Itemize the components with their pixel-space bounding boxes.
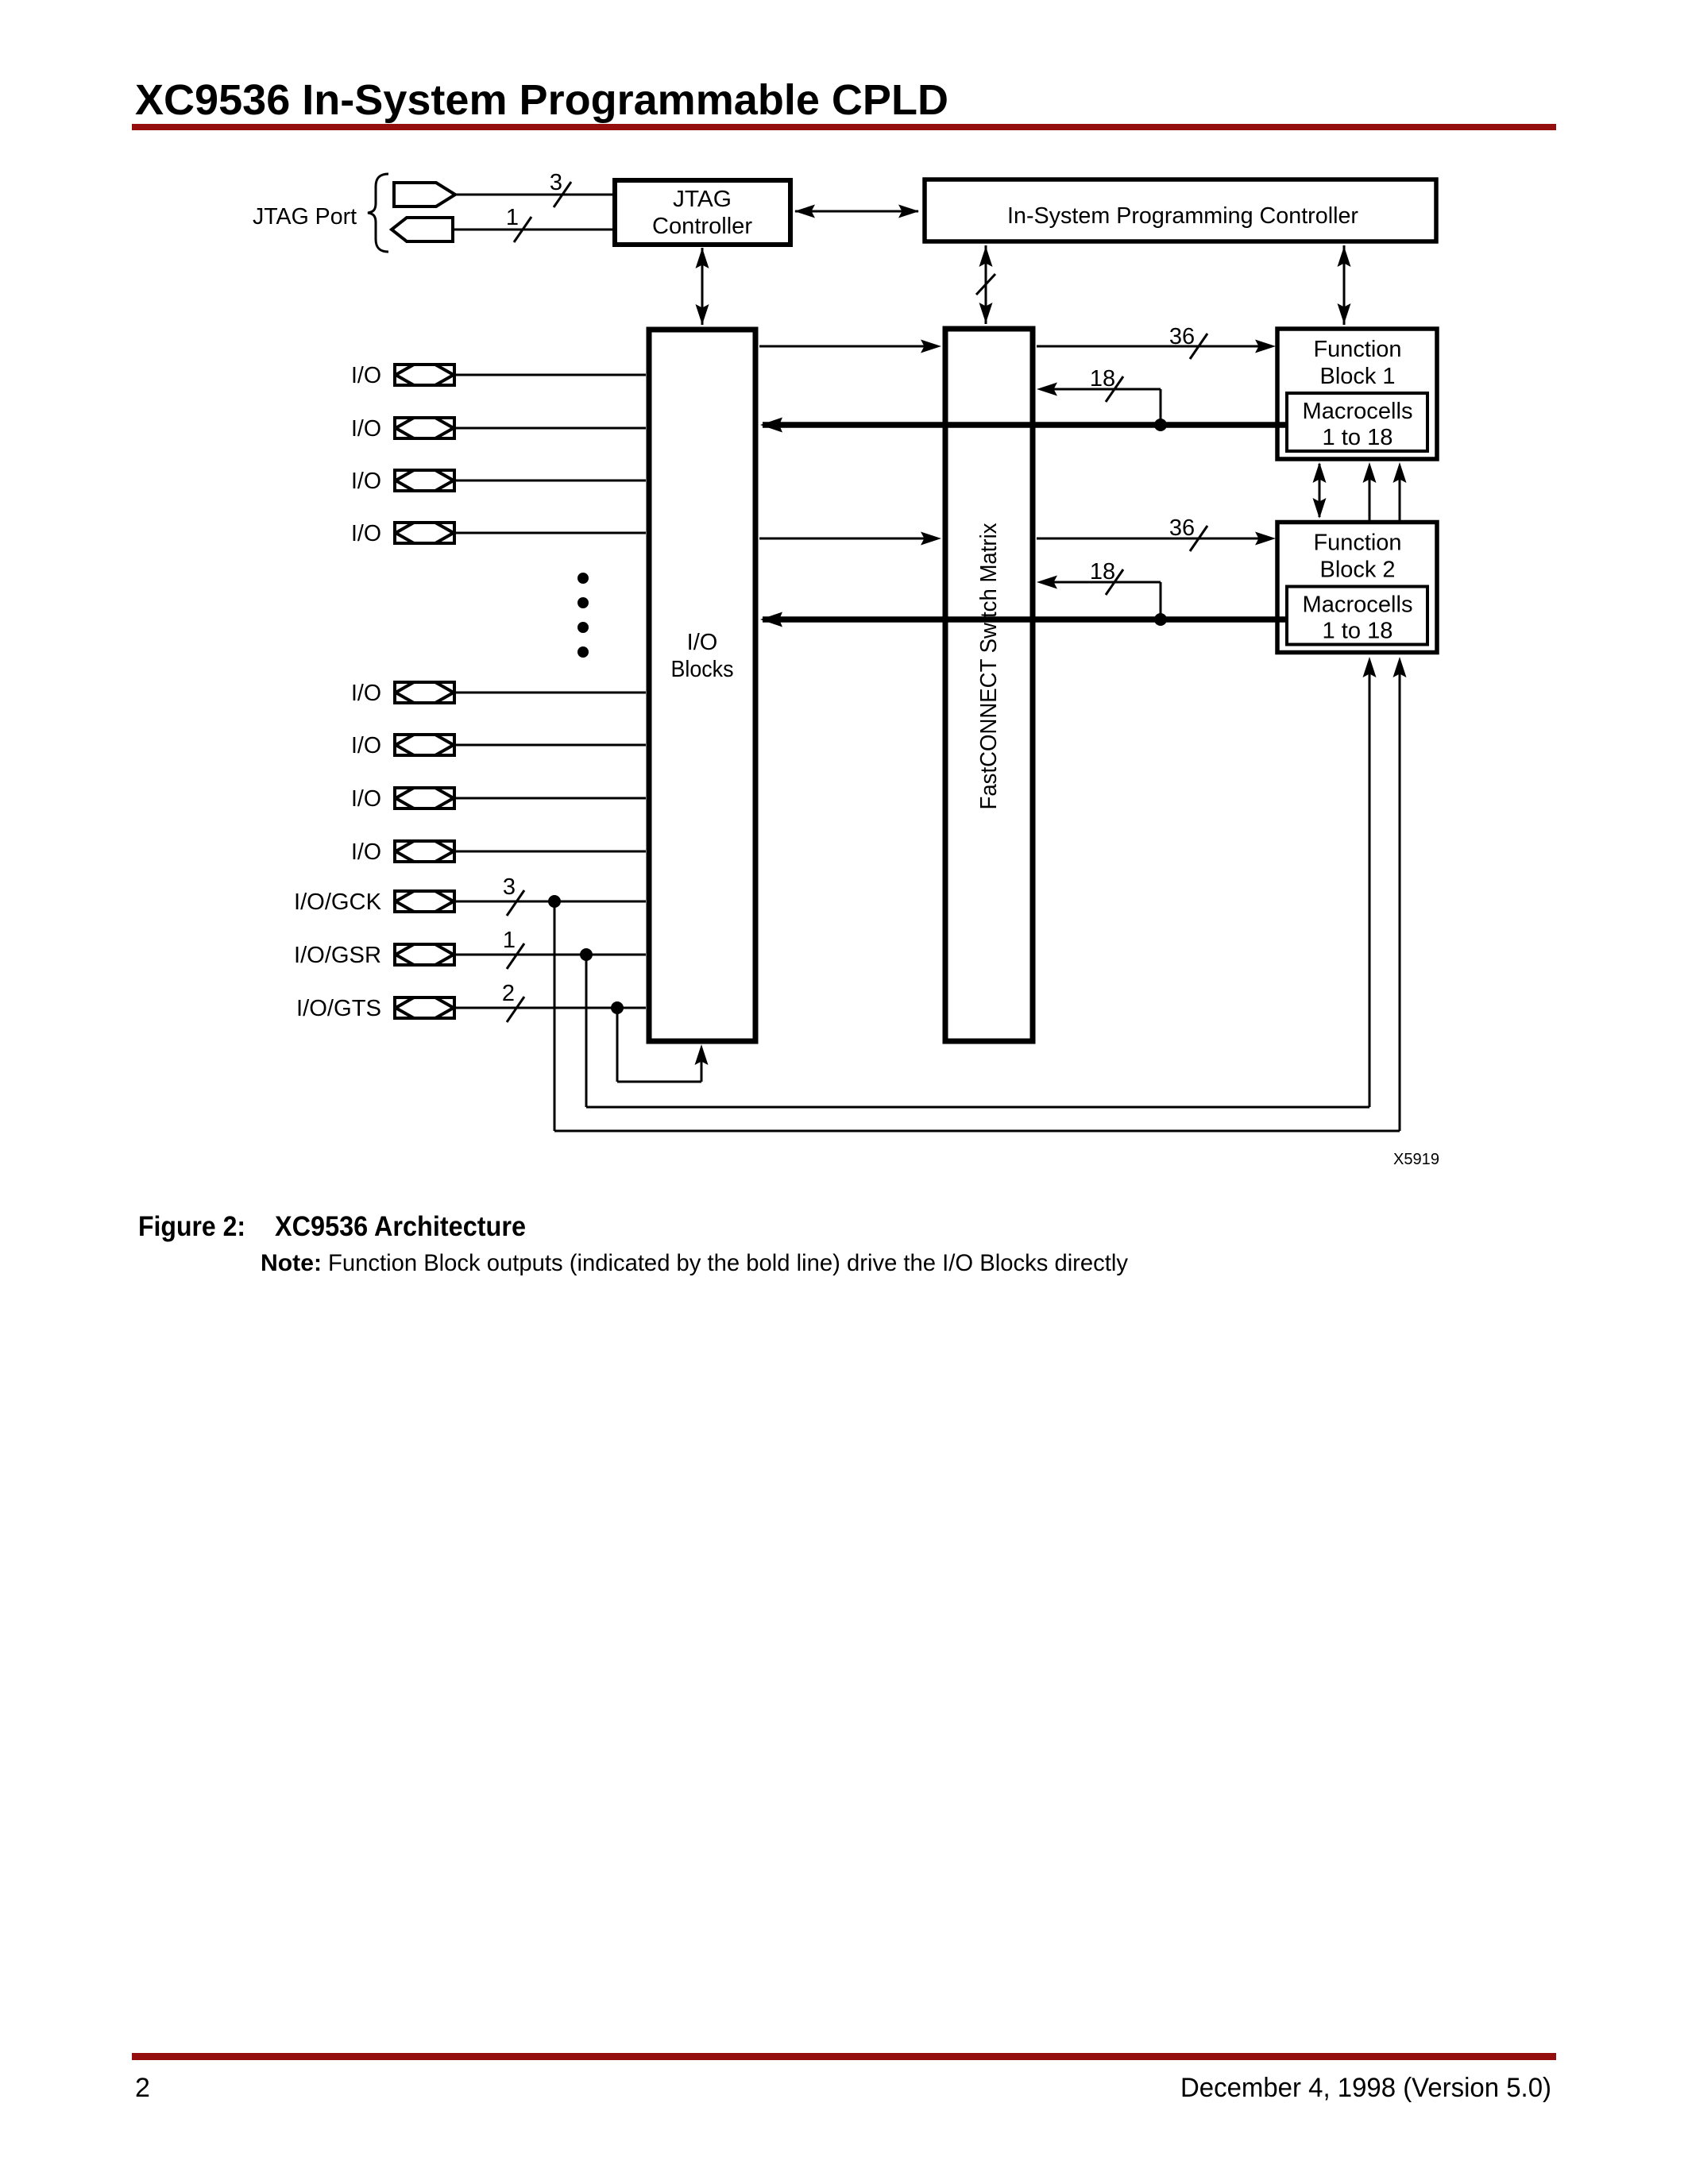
svg-text:Function: Function: [1314, 337, 1402, 362]
svg-text:I/O/GCK: I/O/GCK: [294, 889, 382, 915]
svg-text:Function: Function: [1314, 531, 1402, 556]
svg-text:XC9536 Architecture: XC9536 Architecture: [275, 1211, 526, 1242]
svg-text:I/O/GTS: I/O/GTS: [296, 996, 381, 1021]
svg-text:18: 18: [1090, 559, 1115, 585]
svg-text:18: 18: [1090, 366, 1115, 392]
svg-text:Figure 2:: Figure 2:: [138, 1211, 245, 1242]
svg-text:1: 1: [506, 205, 519, 230]
svg-text:I/O/GSR: I/O/GSR: [294, 943, 381, 968]
svg-text:I/O: I/O: [351, 681, 381, 706]
svg-text:3: 3: [550, 170, 562, 195]
svg-text:1: 1: [503, 928, 516, 953]
svg-text:I/O: I/O: [351, 363, 381, 388]
svg-text:I/O: I/O: [351, 469, 381, 494]
svg-text:2: 2: [502, 981, 515, 1006]
svg-text:Block 1: Block 1: [1320, 364, 1396, 389]
svg-text:Blocks: Blocks: [671, 657, 734, 682]
svg-text:I/O: I/O: [351, 521, 381, 546]
svg-text:FastCONNECT Switch Matrix: FastCONNECT Switch Matrix: [976, 523, 1002, 809]
svg-text:JTAG Port: JTAG Port: [253, 204, 357, 230]
svg-text:Macrocells: Macrocells: [1303, 592, 1413, 618]
svg-text:I/O: I/O: [351, 786, 381, 812]
svg-text:2: 2: [135, 2073, 150, 2103]
svg-text:1 to 18: 1 to 18: [1323, 425, 1393, 450]
svg-text:Macrocells: Macrocells: [1303, 399, 1413, 424]
svg-text:Block 2: Block 2: [1320, 558, 1396, 583]
svg-text:X5919: X5919: [1393, 1150, 1439, 1168]
svg-text:I/O: I/O: [351, 839, 381, 865]
svg-text:I/O: I/O: [351, 416, 381, 442]
svg-text:3: 3: [503, 874, 516, 900]
svg-text:36: 36: [1169, 515, 1195, 541]
svg-text:December 4, 1998 (Version 5.0): December 4, 1998 (Version 5.0): [1180, 2073, 1551, 2103]
svg-text:36: 36: [1169, 324, 1195, 349]
svg-text:Note:Function Block outputs (i: Note:Function Block outputs (indicated b…: [261, 1250, 1128, 1276]
svg-text:I/O: I/O: [687, 630, 718, 655]
svg-text:I/O: I/O: [351, 733, 381, 758]
svg-text:XC9536 In-System Programmable: XC9536 In-System Programmable CPLD: [135, 76, 948, 124]
svg-text:In-System Programming Controll: In-System Programming Controller: [1007, 203, 1358, 229]
svg-text:1 to 18: 1 to 18: [1323, 619, 1393, 644]
svg-text:JTAG: JTAG: [673, 187, 732, 212]
svg-text:Controller: Controller: [652, 214, 752, 239]
